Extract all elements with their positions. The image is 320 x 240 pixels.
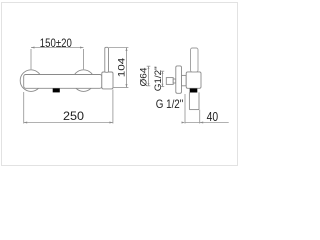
svg-text:G 1/2": G 1/2"	[156, 97, 184, 111]
G1/2 dimension bracket	[161, 71, 164, 86]
page border frame	[2, 3, 238, 166]
threaded nipple	[166, 78, 173, 85]
nipple tab	[173, 79, 176, 83]
dimension 40	[185, 94, 229, 124]
right wall-flange circle	[73, 70, 95, 92]
svg-text:Ø64: Ø64	[138, 68, 149, 87]
wall flange (side view)	[176, 66, 182, 93]
Ø64 dimension bracket	[147, 66, 151, 86]
svg-text:104: 104	[116, 58, 127, 78]
left wall-flange circle	[20, 70, 42, 92]
neck	[182, 75, 187, 85]
dimension 104	[109, 48, 128, 88]
black aerator ring (side view)	[190, 89, 198, 93]
faucet body tube	[24, 75, 102, 89]
outlet tube below block	[189, 92, 199, 109]
valve block (front view)	[102, 72, 113, 89]
svg-text:150±20: 150±20	[40, 38, 72, 50]
valve block (side view)	[186, 72, 201, 88]
dimension 150±20	[31, 48, 84, 70]
dimension 250	[24, 90, 113, 124]
black aerator outlet (front view)	[53, 88, 60, 92]
svg-text:250: 250	[63, 109, 84, 123]
svg-text:40: 40	[207, 110, 219, 124]
lever handle (side view)	[191, 48, 199, 72]
lever handle (front view)	[105, 47, 109, 72]
